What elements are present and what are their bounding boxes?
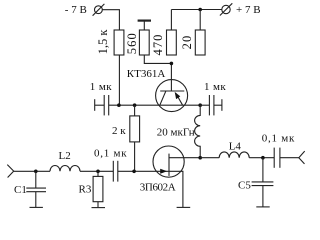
junction R3 [96, 170, 100, 174]
svg-text:R3: R3 [79, 184, 92, 196]
wire R20 top lead [199, 10, 201, 31]
svg-text:0,1 мк: 0,1 мк [94, 148, 127, 160]
capacitor C5 bottom lead [262, 186, 264, 207]
wire R2k bottom to gate line [134, 142, 136, 171]
junction R1/rail [117, 103, 121, 107]
svg-text:1 мк: 1 мк [204, 81, 226, 93]
capacitor 1uF right stub bar [221, 99, 223, 111]
wire drain node to L4 [200, 157, 219, 159]
ground under C1 [30, 206, 43, 208]
svg-text:20: 20 [180, 35, 194, 50]
resistor R3 top lead [97, 171, 99, 176]
capacitor 1uF left: stub bar [94, 99, 96, 111]
wire 470 top to +7V rail [170, 10, 172, 31]
junction R2k/gate wire [132, 170, 136, 174]
wire top rail to +7V terminal [171, 9, 221, 11]
svg-text:470: 470 [151, 33, 165, 55]
terminal -7V [93, 4, 105, 16]
resistor R 560 [139, 30, 149, 55]
capacitor 1uF left plates [104, 95, 109, 115]
wire base node down to transistor base [170, 63, 172, 91]
stub terminal above R 560 [138, 21, 151, 30]
inductor 20uH (vertical) [195, 105, 201, 158]
svg-text:20 мкГн: 20 мкГн [157, 127, 195, 139]
svg-text:560: 560 [125, 32, 139, 54]
svg-text:C1: C1 [14, 184, 27, 196]
terminal +7V [220, 3, 232, 15]
wire L4 to output cap [249, 157, 274, 159]
resistor R3 [93, 176, 103, 201]
capacitor C1 plates [26, 188, 46, 192]
junction R2k/rail [133, 103, 137, 107]
wire from -7V terminal to R1 top [102, 10, 119, 30]
resistor R 2k top lead [134, 105, 136, 116]
junction base node [170, 62, 174, 66]
transistor Q2 3P602A [153, 146, 200, 207]
inductor L4 [219, 152, 249, 158]
wire 560 bottom to base node [144, 55, 171, 63]
svg-text:2 к: 2 к [112, 125, 126, 137]
svg-text:КТ361А: КТ361А [127, 68, 166, 80]
terminal input [7, 165, 13, 178]
capacitor 0,1uF left plates [113, 161, 118, 182]
svg-text:0,1 мк: 0,1 мк [262, 132, 295, 144]
capacitor C5 top lead [262, 158, 264, 182]
svg-text:L4: L4 [229, 141, 242, 153]
wire cap to stub [214, 104, 222, 106]
wire cap to FET gate [118, 170, 169, 172]
resistor R 20 [195, 30, 205, 55]
ground under R3 [92, 207, 106, 209]
ground under Q2 source [177, 206, 191, 208]
wire L2 to cap 0,1 left [80, 170, 113, 172]
svg-text:C5: C5 [238, 179, 251, 191]
resistor R 470 [167, 30, 177, 55]
wire R1 bottom to upper rail [118, 55, 120, 105]
svg-text:+ 7 В: + 7 В [236, 4, 261, 16]
upper rail wire [109, 104, 201, 106]
resistor R 2k [130, 116, 140, 142]
capacitor C1 bottom lead [35, 192, 37, 207]
capacitor C1 top lead [35, 171, 37, 188]
capacitor 0,1uF right plates [274, 148, 280, 168]
svg-text:3П602А: 3П602А [140, 181, 176, 193]
junction drain/L4 [198, 156, 202, 160]
terminal output [299, 151, 305, 164]
svg-text:L2: L2 [59, 150, 71, 162]
svg-text:1,5 к: 1,5 к [96, 29, 110, 55]
wire input to L2 [14, 170, 50, 172]
capacitor 1uF right plates [209, 95, 214, 115]
inductor L2 [50, 166, 80, 172]
junction top rail / R20 [198, 8, 202, 12]
ground under C5 [256, 206, 269, 208]
junction rail/R20/cap [198, 103, 202, 107]
resistor R 1,5k [114, 30, 124, 55]
junction C5 [261, 156, 265, 160]
wire rail to right cap [200, 104, 209, 106]
junction C1 [34, 170, 38, 174]
transistor Q1 KT361A [156, 80, 188, 112]
resistor R3 bottom lead [97, 202, 99, 208]
svg-text:- 7 В: - 7 В [65, 4, 87, 16]
wire cap to output [280, 157, 299, 159]
svg-text:1 мк: 1 мк [90, 81, 112, 93]
capacitor C5 plates [252, 182, 274, 186]
wire stub to cap plate [95, 104, 105, 106]
